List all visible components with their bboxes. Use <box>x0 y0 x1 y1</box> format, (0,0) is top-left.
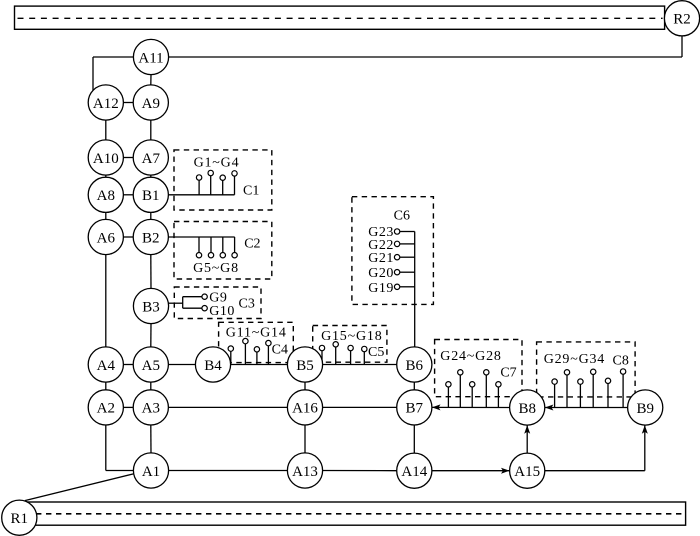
svg-text:A8: A8 <box>97 188 115 204</box>
svg-text:B2: B2 <box>142 230 160 246</box>
svg-text:G20: G20 <box>368 266 394 281</box>
svg-text:B6: B6 <box>406 358 424 374</box>
svg-text:C7: C7 <box>500 366 516 381</box>
svg-text:A1: A1 <box>142 464 160 480</box>
svg-text:A13: A13 <box>292 464 318 480</box>
svg-text:A11: A11 <box>138 50 163 66</box>
svg-text:R2: R2 <box>673 12 691 28</box>
svg-text:G29~G34: G29~G34 <box>544 352 605 367</box>
svg-text:B1: B1 <box>142 188 160 204</box>
svg-text:A12: A12 <box>93 96 119 112</box>
svg-text:G5~G8: G5~G8 <box>193 261 239 276</box>
svg-text:C3: C3 <box>239 296 255 311</box>
svg-text:B4: B4 <box>204 358 222 374</box>
svg-text:G19: G19 <box>368 281 394 296</box>
svg-text:A10: A10 <box>93 151 119 167</box>
svg-text:C4: C4 <box>272 343 288 358</box>
svg-text:A5: A5 <box>142 358 160 374</box>
svg-text:G1~G4: G1~G4 <box>194 156 240 171</box>
svg-text:C6: C6 <box>394 209 410 224</box>
svg-text:B7: B7 <box>406 401 424 417</box>
svg-text:B9: B9 <box>636 401 654 417</box>
svg-text:A9: A9 <box>142 96 160 112</box>
svg-text:C8: C8 <box>613 354 629 369</box>
svg-text:A7: A7 <box>142 151 161 167</box>
svg-text:C1: C1 <box>243 184 259 199</box>
svg-text:A14: A14 <box>401 464 427 480</box>
svg-text:B5: B5 <box>296 358 314 374</box>
svg-text:A16: A16 <box>292 401 318 417</box>
svg-text:A4: A4 <box>97 358 116 374</box>
svg-text:A3: A3 <box>142 401 160 417</box>
svg-text:A15: A15 <box>514 464 540 480</box>
svg-text:B3: B3 <box>142 299 160 315</box>
svg-text:G21: G21 <box>368 251 394 266</box>
svg-text:G11~G14: G11~G14 <box>226 325 287 340</box>
svg-text:G10: G10 <box>209 304 235 319</box>
svg-text:C2: C2 <box>244 236 260 251</box>
svg-text:G24~G28: G24~G28 <box>440 349 501 364</box>
svg-text:A6: A6 <box>97 230 116 246</box>
svg-text:R1: R1 <box>11 511 29 527</box>
svg-text:B8: B8 <box>518 401 536 417</box>
svg-text:G15~G18: G15~G18 <box>321 329 382 344</box>
svg-text:C5: C5 <box>368 345 384 360</box>
svg-text:A2: A2 <box>97 401 115 417</box>
